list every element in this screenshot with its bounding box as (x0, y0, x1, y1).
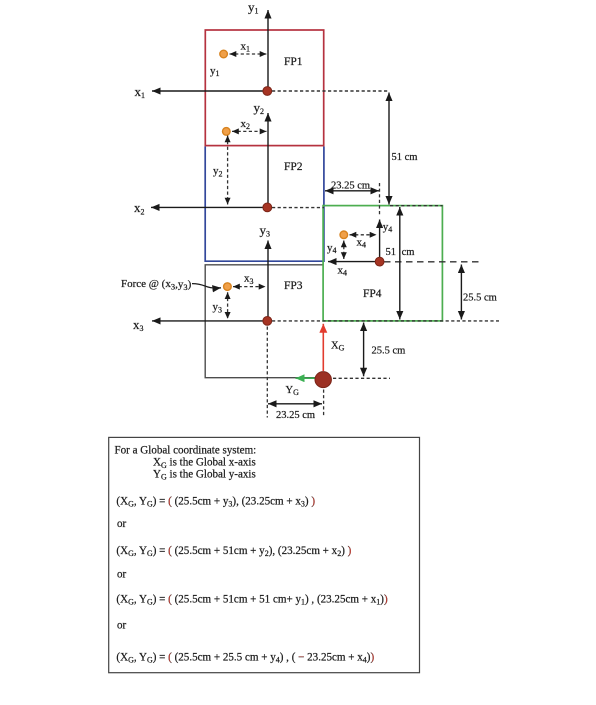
node FP2 origin dot (263, 203, 272, 212)
svg-text:y4: y4 (327, 242, 337, 255)
dimension 23.25 cm bottom (268, 403, 322, 405)
svg-text:FP3: FP3 (284, 280, 303, 292)
svg-text:y2: y2 (213, 165, 223, 178)
axis x4 (328, 261, 380, 263)
svg-text:25.5 cm: 25.5 cm (372, 346, 406, 357)
svg-text:x3: x3 (133, 317, 144, 333)
force plate FP2 (205, 147, 324, 262)
svg-text:x4: x4 (357, 237, 367, 250)
force plate FP1 (205, 30, 323, 146)
svg-text:YG is the Global y-axis: YG is the Global y-axis (153, 468, 256, 481)
wire pointer to force point (192, 284, 221, 288)
node FP3 origin dot (263, 317, 272, 326)
dimension 25.5 cm lower (363, 323, 365, 377)
wire dashed right of origin (333, 377, 390, 379)
svg-text:y3: y3 (260, 222, 271, 238)
dimension 25.5 cm right (460, 265, 462, 320)
node FP4 origin dot (375, 257, 384, 266)
wire dashed x1 extension (272, 90, 389, 92)
node FP3 force point (orange) (224, 283, 232, 291)
wire dashed extension below FP3 dot (266, 327, 268, 418)
dimension 51 cm FP4 height (399, 207, 401, 320)
svg-text:23.25 cm: 23.25 cm (276, 410, 315, 421)
wire dashed drop at x=379.5 (379, 183, 381, 215)
wire dashed x3 extension (272, 320, 499, 322)
dimension y4 dashed arrow (343, 241, 345, 260)
axis x2 (151, 206, 266, 208)
wire dashed x4 extension (384, 261, 480, 263)
force plate FP4 (323, 206, 442, 321)
svg-text:or: or (117, 620, 127, 632)
svg-text:x4: x4 (338, 264, 348, 277)
axis x3 (152, 320, 266, 322)
svg-text:y4: y4 (383, 221, 393, 234)
dimension x3 dashed arrow (233, 286, 266, 288)
dimension y2 dashed arrow (227, 136, 229, 205)
svg-text:y2: y2 (254, 100, 265, 116)
svg-text:x1: x1 (241, 41, 251, 54)
axis y4 (379, 220, 381, 262)
svg-text:(XG, YG) = ( (25.5cm + 51cm +: (XG, YG) = ( (25.5cm + 51cm + y2), (23.2… (116, 545, 351, 558)
wire dashed x2 extension (272, 207, 324, 209)
dimension 23.25 cm upper (325, 190, 379, 192)
svg-text:XG: XG (331, 341, 345, 353)
svg-text:51 cm: 51 cm (392, 152, 418, 163)
dimension y3 dashed arrow (227, 292, 229, 319)
svg-text:x2: x2 (134, 200, 145, 216)
svg-text:or: or (117, 518, 127, 530)
dimension 51 cm (x1 to x2) (388, 93, 390, 205)
svg-text:23.25 cm: 23.25 cm (331, 181, 370, 192)
node FP1 origin dot (263, 87, 272, 96)
svg-text:YG: YG (286, 385, 300, 397)
dimension x4 dashed arrow (350, 234, 377, 236)
wire dashed extension below origin (323, 390, 325, 418)
svg-text:x2: x2 (241, 118, 251, 131)
node FP4 force point (orange) (340, 231, 348, 239)
svg-text:Force @ (x3,y3): Force @ (x3,y3) (121, 278, 192, 292)
svg-text:(XG, YG) = ( (25.5cm + y3), (2: (XG, YG) = ( (25.5cm + y3), (23.25cm + x… (116, 496, 315, 509)
svg-text:x1: x1 (135, 84, 146, 100)
svg-text:For a Global coordinate system: For a Global coordinate system: (115, 445, 257, 457)
svg-text:y1: y1 (210, 65, 220, 78)
svg-text:(XG, YG) = ( (25.5cm + 51cm +: (XG, YG) = ( (25.5cm + 51cm + 51 cm+ y1)… (116, 594, 388, 607)
svg-text:y3: y3 (213, 301, 223, 314)
svg-text:y1: y1 (248, 0, 259, 16)
axis x1 (152, 90, 266, 92)
svg-text:x3: x3 (244, 273, 254, 286)
wire dashed on FP4 top edge (390, 205, 443, 207)
dimension x1 dashed arrow (230, 53, 267, 55)
node global origin dot (315, 372, 331, 388)
axis YG (green) (296, 377, 317, 379)
equation box (109, 437, 420, 672)
svg-text:(XG, YG) = ( (25.5cm + 25.5 cm: (XG, YG) = ( (25.5cm + 25.5 cm + y4) , (… (116, 652, 374, 665)
node FP2 force point (orange) (223, 128, 231, 136)
svg-text:FP4: FP4 (363, 288, 382, 300)
axis y2 (267, 113, 269, 207)
svg-text:or: or (117, 569, 127, 581)
svg-text:FP2: FP2 (284, 161, 303, 173)
svg-text:FP1: FP1 (284, 56, 303, 68)
force plate FP3 (205, 265, 323, 378)
node FP1 force point (orange) (220, 50, 228, 58)
axis XG (red) (322, 324, 324, 371)
axis y1 (267, 10, 269, 91)
axis y3 (267, 241, 269, 321)
svg-text:25.5 cm: 25.5 cm (463, 293, 497, 304)
dimension x2 dashed arrow (232, 130, 267, 132)
